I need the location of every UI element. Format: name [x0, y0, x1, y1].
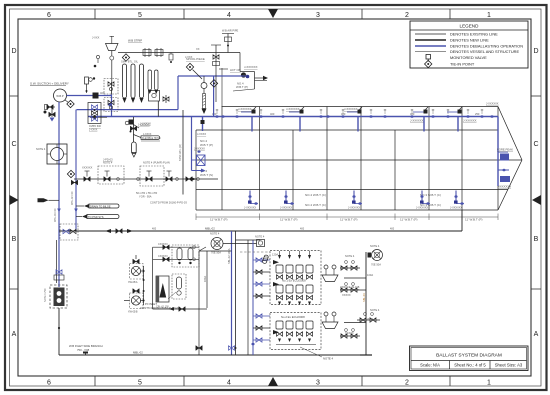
svg-text:11' W.B.T (P): 11' W.B.T (P): [400, 218, 417, 222]
svg-text:2: 2: [405, 380, 409, 387]
tank divider 9 bow: [497, 107, 499, 211]
legend monitored valve symbol: [426, 55, 431, 60]
svg-text:J-XXXX: J-XXXX: [197, 132, 206, 136]
tank mid line 1: [196, 159, 522, 161]
svg-text:3: 3: [316, 380, 320, 387]
sample cylinder 4 small: [148, 70, 152, 94]
ballast main bow riser (blue): [497, 117, 499, 187]
svg-text:J-XXXXXX: J-XXXXXX: [244, 65, 258, 69]
top process line y52.5: [118, 52, 240, 54]
svg-text:NO.4 W.B.T (C): NO.4 W.B.T (C): [305, 203, 326, 207]
svg-text:MONITORED VALVE: MONITORED VALVE: [450, 55, 487, 60]
manifold labels: [82, 158, 187, 205]
cluster pair 2: [340, 283, 366, 297]
top tank drop cluster 3: [344, 107, 362, 132]
W.B inlet side branch: [69, 344, 103, 355]
manifold right blue unit: [192, 117, 206, 173]
tank drop cluster leftmost: [197, 117, 206, 137]
lower riser to bottom corner: [58, 308, 60, 355]
legend tie-in symbol: [425, 60, 432, 67]
svg-text:J-XXXX: J-XXXX: [89, 129, 98, 132]
svg-text:5: 5: [138, 380, 142, 387]
svg-text:Sheet No.: 4 of 5: Sheet No.: 4 of 5: [454, 363, 486, 368]
svg-text:400: 400: [300, 228, 305, 231]
centre marker triangle top: [268, 9, 278, 18]
svg-text:1: 1: [487, 12, 491, 19]
manifold dashed box B: [140, 166, 164, 186]
svg-text:WBL-03 150: WBL-03 150: [54, 208, 57, 222]
manifold row right arrow: [191, 177, 196, 181]
svg-text:CONT'D FROM 26160-P-PD-03: CONT'D FROM 26160-P-PD-03: [150, 201, 187, 205]
pump bottom line CBL-01: [153, 306, 207, 312]
svg-text:J-XXX: J-XXX: [185, 55, 193, 59]
H fitting 2: [155, 48, 163, 57]
svg-text:4: 4: [227, 380, 231, 387]
svg-text:W.B.P: W.B.P: [56, 94, 63, 98]
manifold dashed box A: [98, 166, 124, 184]
svg-text:400: 400: [152, 228, 157, 231]
tie-in diamond on bypass: [210, 80, 217, 87]
tie-in diamond left column: [67, 170, 74, 177]
small valve under diamond: [71, 180, 77, 185]
compass rose right: [368, 244, 383, 267]
valve cluster mid left: [54, 270, 64, 280]
main bottom line MBL-02: [59, 230, 462, 232]
cluster gauges top pair: [340, 254, 360, 270]
blue bypass up leg x178: [177, 76, 179, 110]
hose drop with arrow into deck: [201, 76, 207, 114]
svg-text:S.W. SUCTION + DELIVERY: S.W. SUCTION + DELIVERY: [30, 82, 69, 86]
tank left edge: [195, 130, 197, 210]
legend deballasting line sample: [415, 45, 446, 47]
unit box right: [149, 91, 170, 104]
drop fitting x158: [157, 101, 159, 117]
manifold dashed box 2: [270, 313, 321, 350]
svg-text:CXXXXX: CXXXXX: [158, 255, 168, 258]
svg-text:D: D: [533, 48, 538, 55]
grid reference numbers top: [47, 12, 491, 19]
svg-text:J-XXXXX: J-XXXXX: [140, 122, 151, 126]
drop line x133.5 with sampling hose: [130, 117, 152, 142]
svg-text:DENOTES NEW LINE: DENOTES NEW LINE: [450, 38, 489, 43]
dashed unit box 2: [104, 98, 118, 112]
svg-text:NOTE 4: NOTE 4: [370, 308, 380, 312]
svg-text:DENOTES VESSEL AND STRUCTURE: DENOTES VESSEL AND STRUCTURE: [450, 49, 519, 54]
blue bypass down leg x213.6: [213, 76, 215, 117]
legend existing line sample: [415, 33, 446, 35]
legend box: [410, 21, 528, 68]
svg-text:11' W.B.T (P): 11' W.B.T (P): [340, 218, 357, 222]
pump EBP 1: [128, 255, 143, 284]
svg-text:11' W.B.T (P): 11' W.B.T (P): [465, 218, 482, 222]
tank divider 5: [360, 107, 362, 211]
svg-text:B: B: [12, 236, 17, 243]
svg-text:J-XXXXXX: J-XXXXXX: [344, 107, 358, 111]
svg-text:XXXXX: XXXXX: [342, 293, 351, 297]
blue bypass top y76: [178, 75, 246, 77]
svg-text:DRAIN TO BILGE: DRAIN TO BILGE: [90, 204, 111, 208]
svg-text:DENOTES DEBALLASTING OPERATION: DENOTES DEBALLASTING OPERATION: [450, 44, 523, 49]
grid tick marks right: [531, 96, 541, 289]
svg-text:6: 6: [47, 12, 51, 19]
svg-text:CXXXXX: CXXXXX: [158, 243, 168, 246]
manifold gauge 1: [117, 178, 120, 181]
svg-text:DENOTES EXISTING LINE: DENOTES EXISTING LINE: [450, 32, 498, 37]
svg-text:XXXXXX: XXXXXX: [82, 166, 93, 170]
svg-text:MBL-02: MBL-02: [133, 351, 143, 355]
svg-text:6: 6: [47, 380, 51, 387]
monitored valve on discharge: [93, 93, 99, 99]
grid reference letters left: [11, 48, 16, 338]
svg-text:J-XXXXXX: J-XXXXXX: [416, 207, 428, 210]
pump W.B.P: [54, 89, 67, 102]
bottom distribution line: [59, 354, 366, 356]
funnel hopper: [92, 36, 118, 83]
svg-text:W.B.T (P): W.B.T (P): [200, 143, 213, 147]
svg-text:W.B AIR PIPE: W.B AIR PIPE: [222, 29, 239, 33]
manifold gauge 3: [176, 178, 179, 181]
svg-text:ORIFICE 49-108: ORIFICE 49-108: [340, 285, 360, 289]
svg-text:J-XXXXXX: J-XXXXXX: [463, 119, 477, 123]
ship bow upper slant: [498, 107, 522, 161]
discharge line pump to main (blue): [67, 95, 113, 97]
svg-text:J-XXXXXX: J-XXXXXX: [286, 107, 300, 111]
pump header line 2: [153, 255, 199, 262]
tank divider 3: [292, 130, 294, 210]
manifold gauge 2: [137, 178, 140, 181]
svg-text:NOTE 4: NOTE 4: [210, 232, 220, 236]
svg-text:5: 5: [138, 12, 142, 19]
svg-text:NOTE 4: NOTE 4: [345, 254, 355, 258]
blue riser x112: [111, 94, 113, 117]
svg-text:160A: 160A: [203, 276, 207, 282]
pointer capsule drain to bilge: [76, 204, 119, 208]
svg-text:2: 2: [405, 12, 409, 19]
pump manifold verticals: [141, 247, 153, 309]
manifold gauge 4: [197, 178, 200, 181]
gauge funnel box2: [322, 312, 338, 329]
P/I inlet note: [140, 302, 180, 310]
svg-text:LIFT ON: LIFT ON: [230, 68, 241, 72]
svg-text:MBL-02: MBL-02: [205, 227, 215, 231]
svg-text:400: 400: [341, 112, 346, 116]
svg-text:XXXXX: XXXXX: [345, 331, 354, 335]
sea chest box upper: [36, 144, 67, 164]
vent ticks on main: [216, 109, 483, 114]
equipment labels top left: [121, 29, 247, 78]
sample cylinder 2: [131, 64, 135, 103]
tie-in diamond on top line: [122, 54, 129, 61]
ship deck line: [222, 106, 499, 108]
gauge funnel box1: [322, 265, 338, 282]
svg-text:A: A: [534, 331, 539, 338]
tank divider 1: [221, 107, 223, 211]
monitored valve square above center: [255, 235, 265, 247]
manifold valve 4: [166, 177, 172, 182]
svg-text:70E 50A: 70E 50A: [371, 263, 381, 267]
air vent fitting x228: [222, 34, 234, 53]
svg-text:C: C: [533, 141, 538, 148]
junction cluster under main x131: [125, 120, 151, 129]
lower tank cluster 3: [348, 191, 362, 210]
top tank drop cluster 1: [238, 107, 256, 132]
dimension line under ship: [196, 214, 498, 221]
tie-in diamond at pump: [67, 100, 74, 107]
svg-text:BALLAST SYSTEM DIAGRAM: BALLAST SYSTEM DIAGRAM: [436, 353, 502, 359]
svg-text:LEGEND: LEGEND: [460, 24, 480, 29]
svg-text:NOTE 4 (PUMP) PLAN: NOTE 4 (PUMP) PLAN: [143, 161, 170, 165]
centre marker triangle right: [532, 195, 541, 205]
pointer capsule to psd: [76, 215, 119, 219]
svg-text:XX: XX: [196, 47, 200, 51]
feeder stub valves: [253, 258, 270, 342]
dashed strainer box on riser: [60, 224, 78, 240]
svg-text:4: 4: [227, 12, 231, 19]
pointer capsule left: [38, 198, 60, 202]
top tank drop cluster 4: [410, 107, 428, 132]
sea chest box lower: [44, 285, 67, 308]
svg-text:FLEXIBLE HOSE: FLEXIBLE HOSE: [142, 137, 161, 140]
left dashed unit box C: [172, 245, 199, 267]
manifold valve 1: [84, 177, 90, 182]
grid reference numbers bottom: [47, 380, 491, 387]
svg-text:CBL-01 150: CBL-01 150: [156, 306, 169, 309]
center feeder verticals: [236, 240, 261, 355]
svg-text:No.2 Ex ECU/2008: No.2 Ex ECU/2008: [281, 315, 305, 319]
tank top line: [196, 129, 498, 131]
main line size labels: [212, 112, 480, 116]
svg-text:NOTE 4: NOTE 4: [255, 235, 265, 239]
vertical riser x59 (blue): [58, 102, 60, 287]
svg-text:J-XXXXX: J-XXXXX: [194, 147, 205, 151]
svg-text:YOR - 95A: YOR - 95A: [139, 195, 152, 199]
manifold valve 5: [186, 177, 192, 182]
svg-text:W.B.T (S): W.B.T (S): [200, 173, 213, 177]
svg-text:TO PSD SYS: TO PSD SYS: [88, 215, 104, 219]
grey return arrow y117.3: [90, 115, 107, 119]
svg-text:NO.4 W.B.T (C): NO.4 W.B.T (C): [305, 193, 326, 197]
svg-text:NOTE 4: NOTE 4: [36, 147, 46, 151]
gauge pair above funnel: [94, 55, 100, 67]
centre marker triangle bottom: [268, 377, 278, 386]
svg-text:Sheet Size: A3: Sheet Size: A3: [495, 363, 523, 368]
svg-text:11' W.B.T (P): 11' W.B.T (P): [280, 218, 297, 222]
vertical line x76 (black): [75, 110, 77, 231]
svg-text:XXXXXXX: XXXXXXX: [498, 185, 511, 189]
svg-text:750 - X08: 750 - X08: [77, 348, 90, 352]
tank labels: [200, 139, 482, 222]
svg-text:120A: 120A: [272, 253, 278, 257]
main line valve dots: [215, 115, 493, 118]
pointer capsule double line: [134, 135, 162, 142]
grid tick marks left: [10, 96, 19, 289]
svg-text:J-PD-03: J-PD-03: [103, 158, 113, 162]
manifold valve 2: [104, 177, 110, 182]
svg-text:J-XXXXXX: J-XXXXXX: [280, 207, 292, 210]
svg-text:C: C: [11, 141, 16, 148]
sampling capsule vertical: [132, 142, 137, 157]
svg-text:XW-05/B: XW-05/B: [128, 311, 138, 314]
overboard valve chest: [88, 103, 101, 124]
title block box: [410, 346, 529, 371]
svg-text:SBL-03: SBL-03: [362, 293, 366, 302]
svg-text:NOTE 4: NOTE 4: [323, 357, 334, 361]
svg-text:W.B.T (P): W.B.T (P): [236, 85, 248, 89]
svg-text:11' W.B.T (P): 11' W.B.T (P): [210, 218, 227, 222]
svg-text:J-XXXXXX: J-XXXXXX: [244, 207, 256, 210]
sample cylinder 1: [123, 64, 127, 103]
svg-text:J-XXXXXX: J-XXXXXX: [486, 102, 499, 106]
MBL valve with arrows: [105, 229, 133, 234]
sample cylinder 5 small: [155, 70, 159, 94]
top tank drop cluster 5: [447, 107, 477, 132]
grid tick marks top: [95, 9, 450, 19]
vent vertical x216: [211, 45, 221, 102]
cluster pair 4: [340, 329, 360, 339]
lower tank cluster 1: [244, 191, 258, 210]
svg-text:B: B: [534, 236, 539, 243]
svg-text:100A: 100A: [367, 273, 373, 277]
stack fitting above main: [85, 77, 96, 93]
risers from MBL to bottom main: [227, 231, 236, 355]
tank divider 6: [394, 130, 396, 210]
left dashed unit box D: [172, 274, 186, 299]
bottom junction fittings: [196, 343, 255, 351]
tank mid line 2: [196, 189, 508, 191]
manifold dashed box 1: [270, 251, 321, 305]
lower tank cluster 4: [416, 191, 430, 210]
spool piece line: [186, 53, 240, 80]
svg-text:TIE-IN POINT: TIE-IN POINT: [450, 62, 475, 67]
svg-text:J-XXXXXX: J-XXXXXX: [410, 119, 424, 123]
tank divider 7: [428, 107, 430, 211]
centre marker triangle left: [10, 195, 19, 205]
blue flow arrows on risers: [57, 209, 61, 213]
svg-text:NOTE 4 750: NOTE 4 750: [44, 288, 47, 302]
H fitting 1: [143, 48, 151, 57]
pump header line 1: [153, 243, 199, 250]
grid reference letters right: [533, 48, 538, 338]
manifold valve 3: [146, 177, 152, 182]
tank divider 2: [259, 107, 261, 211]
svg-text:J-XXXXXX: J-XXXXXX: [238, 107, 252, 111]
svg-text:XX: XX: [243, 73, 247, 77]
legend texts: [450, 32, 523, 67]
svg-text:J-XXX: J-XXX: [92, 36, 100, 40]
svg-text:XW-05/A: XW-05/A: [128, 281, 138, 284]
svg-text:W.B STRIP: W.B STRIP: [128, 39, 142, 43]
sample cylinder 3: [140, 64, 144, 103]
svg-text:400: 400: [212, 112, 217, 116]
svg-text:WBL-02 150: WBL-02 150: [71, 191, 74, 205]
svg-text:400: 400: [410, 112, 415, 116]
SHIP: [196, 68, 522, 210]
grid tick marks bottom: [95, 376, 450, 386]
small fitting x171: [169, 53, 173, 64]
NOTE 4 arrow bottom: [300, 347, 334, 361]
svg-text:200A: 200A: [367, 317, 373, 321]
bow valve cluster: [486, 102, 513, 189]
svg-text:A: A: [12, 331, 17, 338]
svg-text:TANK WFL (O): TANK WFL (O): [179, 144, 182, 161]
svg-text:400: 400: [270, 112, 275, 116]
right riser: [344, 252, 373, 355]
pump EBP 2: [124, 289, 143, 314]
blue branch y109.6: [77, 109, 179, 111]
manifold small tees above: [85, 171, 172, 177]
svg-text:3: 3: [316, 12, 320, 19]
lower tank cluster 5: [450, 191, 464, 210]
svg-text:J-XXXXXX: J-XXXXXX: [450, 207, 462, 210]
top tank drop cluster 2: [286, 107, 304, 132]
lower tank cluster 2: [280, 191, 294, 210]
ballast main line (blue): [88, 116, 498, 118]
ship bow lower slant: [498, 160, 522, 210]
tank divider 4: [326, 107, 328, 211]
inlet arrows to manifold box 1: [273, 260, 279, 264]
cluster pair 3: [357, 308, 380, 322]
svg-text:250: 250: [475, 112, 480, 116]
strainer with up arrow: [156, 276, 169, 302]
compass rose note4 left: [199, 232, 257, 255]
svg-text:50 mTR x 55 mTR: 50 mTR x 55 mTR: [136, 191, 157, 195]
svg-text:NOTE 4: NOTE 4: [370, 244, 380, 248]
overboard hatched capsule: [262, 255, 269, 264]
svg-text:1: 1: [487, 380, 491, 387]
tank bottom line: [196, 209, 498, 211]
dashed unit box 1: [104, 79, 118, 95]
manifold box 2 components: [276, 321, 316, 345]
svg-text:FORE PEAK: FORE PEAK: [497, 148, 513, 152]
svg-text:400: 400: [390, 228, 395, 231]
vertical line x183: [179, 110, 183, 195]
dashed boundary segment: [240, 251, 270, 253]
black stub above riser: [111, 82, 113, 94]
manifold box 1 row 1 components: [276, 251, 313, 279]
legend vessel structure line sample: [415, 51, 446, 53]
riser to ship bottom: [461, 210, 463, 231]
legend new line sample: [415, 39, 446, 41]
svg-text:D: D: [11, 48, 16, 55]
pump suction fittings: [44, 105, 56, 122]
lift-on hose connection: [230, 65, 268, 91]
manifold box 1 row 2 components: [276, 285, 313, 305]
manifold header line y179: [74, 178, 218, 180]
svg-text:SMP. BTL. OIL: SMP. BTL. OIL: [121, 60, 139, 64]
tank divider 8: [461, 107, 463, 211]
svg-text:Scale: N/A: Scale: N/A: [420, 363, 440, 368]
riser pair x207: [199, 251, 232, 355]
svg-text:J-XXXXXX: J-XXXXXX: [348, 207, 360, 210]
black companion vertical below box: [56, 240, 58, 283]
